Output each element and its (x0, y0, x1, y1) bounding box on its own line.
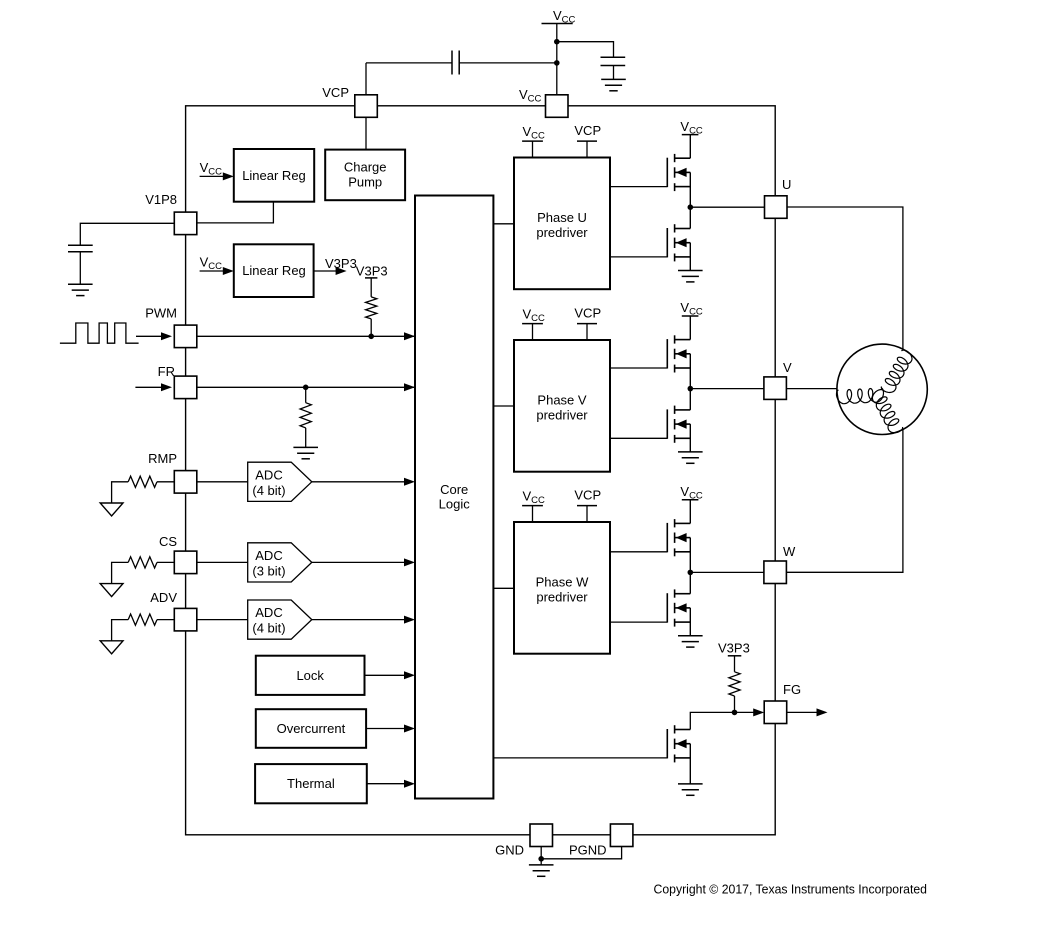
wire CS ext network (112, 562, 129, 583)
wire FG FET drain to node (690, 712, 734, 729)
wire resistor to ground (305, 428, 307, 448)
block Phase V predriver (514, 340, 610, 472)
svg-text:VCP: VCP (574, 305, 601, 320)
transistor V-low (667, 406, 690, 443)
block Phase W predriver (514, 522, 610, 654)
svg-text:V3P3: V3P3 (718, 641, 750, 656)
svg-text:V1P8: V1P8 (145, 192, 177, 207)
wire ADV ext network (112, 620, 129, 641)
wire Vcc to V high FET drain (689, 316, 691, 340)
svg-text:FR: FR (158, 364, 175, 379)
signal ground (RMP) (100, 503, 123, 516)
svg-text:V3P3: V3P3 (356, 264, 388, 279)
wire Linear Reg 2 output V3P3 (314, 270, 341, 272)
wire node to W low drain (689, 572, 691, 593)
svg-text:Core: Core (440, 482, 468, 497)
wire predriver to W low gate (610, 621, 667, 623)
wire predriver to V low gate (610, 437, 667, 439)
wire resistor to RMP pin (157, 481, 174, 483)
wire V low source to ground (689, 424, 691, 452)
pin FR (174, 376, 197, 399)
svg-text:FG: FG (783, 682, 801, 697)
wire W low source to ground (689, 608, 691, 636)
capacitor V1P8 ext (68, 244, 93, 246)
block Thermal (255, 764, 367, 803)
pin FG (764, 701, 787, 724)
pin GND (530, 824, 553, 847)
wire predriver to U high gate (610, 186, 667, 188)
VCP stub (Phase U predriver) (577, 140, 597, 142)
wire Linear Reg 1 to V1P8 (197, 202, 273, 223)
wire GND pin down (540, 847, 542, 859)
junction dot (PWM pullup) (368, 334, 374, 340)
svg-text:VCP: VCP (574, 487, 601, 502)
transistor V-high (667, 335, 690, 372)
ground (phase V low side) (678, 452, 703, 463)
ground (FG FET) (678, 784, 703, 795)
wire predriver to U low gate (610, 256, 667, 258)
motor winding (upper right) (881, 350, 912, 392)
wire node to U pin (690, 206, 764, 208)
wire FG source to ground (689, 744, 691, 784)
svg-text:V3P3: V3P3 (325, 256, 357, 271)
wire W high source to node (689, 538, 691, 573)
wire predriver to V high gate (610, 367, 667, 369)
wire PWM input arrow (136, 335, 166, 337)
svg-text:ADC: ADC (255, 605, 282, 620)
wire cap to ground (79, 252, 81, 285)
wire ADC RMP to core logic (312, 481, 409, 483)
wire cap to ground (613, 66, 615, 80)
wire ADV pin to ADC (197, 619, 248, 621)
svg-text:VCC: VCC (200, 160, 223, 178)
wire predriver to W high gate (610, 551, 667, 553)
ground (GND/PGND) (529, 865, 554, 876)
block Phase U predriver (514, 158, 610, 290)
svg-text:predriver: predriver (536, 589, 588, 604)
pin PGND (610, 824, 633, 847)
resistor V3P3 pullup (PWM) (366, 297, 377, 319)
resistor RMP input (128, 476, 157, 487)
wire FR junction to resistor (305, 387, 307, 402)
junction dot (FG) (732, 710, 738, 716)
Vcc rail (phase W high side) (682, 499, 699, 501)
svg-text:VCC: VCC (523, 124, 546, 142)
capacitor VCP-Vcc (451, 51, 453, 75)
VCP stub (Phase V predriver) (577, 323, 597, 325)
wire core logic to Phase U predriver (493, 223, 514, 225)
resistor ADV input (128, 614, 157, 625)
svg-text:(3 bit): (3 bit) (252, 563, 285, 578)
wire core logic to Phase W predriver (493, 587, 514, 589)
transistor U-high (667, 154, 690, 191)
wire FG node to FG pin (735, 711, 759, 713)
wire resistor to FG node (734, 696, 736, 712)
svg-text:Phase U: Phase U (537, 210, 587, 225)
transistor U-low (667, 224, 690, 261)
ground (V1P8 cap) (68, 284, 93, 295)
signal ground (CS) (100, 584, 123, 597)
svg-text:Copyright © 2017, Texas Instru: Copyright © 2017, Texas Instruments Inco… (654, 883, 928, 897)
svg-text:V: V (783, 360, 792, 375)
node U (688, 204, 694, 210)
svg-text:Lock: Lock (296, 668, 324, 683)
pin PWM (174, 325, 197, 348)
svg-text:U: U (782, 177, 791, 192)
Vcc rail (phase U high side) (682, 134, 699, 136)
svg-text:ADC: ADC (255, 548, 282, 563)
resistor FG pullup (729, 672, 740, 696)
wire Vcc to U high FET drain (689, 135, 691, 159)
wire V3P3 to resistor (370, 278, 372, 297)
wire VCP to cap to Vcc (365, 63, 367, 95)
svg-text:Logic: Logic (439, 497, 471, 512)
wire junction to ground (540, 859, 542, 865)
svg-text:Phase W: Phase W (536, 574, 589, 589)
svg-text:(4 bit): (4 bit) (252, 483, 285, 498)
svg-text:VCC: VCC (523, 489, 546, 507)
svg-text:predriver: predriver (536, 407, 588, 422)
Vcc stub (Phase U predriver) (522, 140, 543, 142)
wire CS pin to ADC (197, 561, 248, 563)
wire core logic to Phase V predriver (493, 405, 514, 407)
wire node to W pin (690, 571, 763, 573)
block Linear Reg 2 (234, 244, 314, 297)
pin VCP (355, 95, 378, 118)
junction dot (Vcc/cap) (554, 39, 560, 45)
wire V pin to motor (787, 388, 837, 390)
svg-text:Linear Reg: Linear Reg (242, 168, 306, 183)
node V (688, 386, 694, 392)
wire U low source to ground (689, 243, 691, 271)
svg-text:PGND: PGND (569, 843, 607, 858)
svg-text:VCP: VCP (322, 85, 349, 100)
wire to Vcc bypass cap (557, 42, 614, 58)
wire FG output (787, 711, 821, 713)
svg-text:Pump: Pump (348, 175, 382, 190)
ground (phase W low side) (678, 636, 703, 647)
pin V (764, 377, 787, 400)
svg-text:RMP: RMP (148, 451, 177, 466)
wire VCP pin to charge pump (365, 117, 367, 149)
wire V1P8 to ext capacitor (80, 223, 174, 245)
wire U high source to node (689, 172, 691, 207)
Vcc stub (Phase W predriver) (522, 505, 543, 507)
wire ADC CS to core logic (312, 561, 409, 563)
wire RMP pin to ADC (197, 481, 248, 483)
Vcc rail (phase V high side) (682, 315, 699, 317)
wire core logic to FG gate (493, 757, 667, 759)
wire Vcc to W high FET drain (689, 500, 691, 524)
svg-text:VCC: VCC (519, 87, 542, 105)
svg-text:ADV: ADV (150, 590, 177, 605)
svg-text:VCP: VCP (574, 123, 601, 138)
capacitor Vcc bypass (601, 56, 626, 58)
block Charge Pump (325, 150, 405, 201)
junction dot (FR divider) (303, 385, 309, 391)
wire Lock to core logic (365, 674, 410, 676)
pin VCC (546, 95, 569, 118)
PWM waveform symbol (60, 323, 139, 343)
transistor FG open-drain (667, 725, 690, 762)
wire cap to Vcc node (459, 62, 557, 64)
junction dot (GND) (538, 856, 544, 862)
svg-text:VCC: VCC (680, 119, 703, 137)
motor (BLDC) circle (837, 344, 927, 434)
ADC (4 bit) for ADV (248, 600, 312, 639)
svg-text:VCC: VCC (680, 484, 703, 502)
transistor W-high (667, 519, 690, 556)
wire resistor to ADV pin (157, 619, 174, 621)
node W (688, 570, 694, 576)
motor winding (lower right) (872, 390, 902, 433)
block Core Logic (415, 196, 493, 799)
ADC (4 bit) for RMP (248, 462, 312, 501)
wire Thermal to core logic (367, 783, 409, 785)
wire Vcc to Linear Reg 2 (200, 270, 228, 272)
resistor CS input (128, 557, 157, 568)
svg-text:ADC: ADC (255, 467, 282, 482)
Vcc supply rail (top) (542, 23, 573, 25)
svg-text:GND: GND (495, 843, 524, 858)
svg-text:VCC: VCC (553, 8, 576, 26)
pin W (764, 561, 787, 584)
wire Vcc rail to Vcc pin (556, 24, 558, 96)
block Linear Reg 1 (234, 149, 314, 202)
wire FR to core logic (197, 386, 415, 388)
Vcc stub (Phase V predriver) (522, 323, 543, 325)
block Lock (256, 656, 365, 695)
svg-text:Charge: Charge (344, 160, 387, 175)
ADC (3 bit) for CS (248, 543, 312, 582)
wire FR input arrow (135, 386, 166, 388)
svg-text:VCC: VCC (523, 307, 546, 325)
svg-text:Overcurrent: Overcurrent (277, 721, 346, 736)
pin CS (174, 551, 197, 574)
ground (phase U low side) (678, 271, 703, 282)
svg-text:Thermal: Thermal (287, 776, 335, 791)
svg-text:W: W (783, 544, 796, 559)
wire node to U low drain (689, 207, 691, 228)
ground (FR resistor) (293, 447, 318, 458)
resistor FR pulldown (300, 403, 311, 428)
svg-text:predriver: predriver (536, 225, 588, 240)
VCP stub (Phase W predriver) (577, 505, 597, 507)
pin V1P8 (174, 212, 197, 235)
signal ground (ADV) (100, 641, 123, 654)
wire RMP ext network (112, 482, 129, 503)
pin U (765, 196, 788, 219)
wire node to V pin (690, 388, 763, 390)
wire resistor to CS pin (157, 561, 174, 563)
pin RMP (174, 471, 197, 494)
svg-text:Linear Reg: Linear Reg (242, 263, 306, 278)
junction dot (Vcc/VCP cap) (554, 60, 560, 66)
wire U pin to motor (787, 207, 903, 349)
wire node to V low drain (689, 389, 691, 410)
ground (Vcc bypass) (601, 79, 626, 90)
svg-text:CS: CS (159, 534, 177, 549)
wire PGND to GND junction (541, 847, 621, 859)
transistor W-low (667, 589, 690, 626)
wire Vcc to Linear Reg 1 (200, 175, 228, 177)
wire W pin to motor (787, 429, 903, 572)
block Overcurrent (256, 709, 366, 748)
svg-text:VCC: VCC (200, 255, 223, 273)
wire V high source to node (689, 354, 691, 389)
svg-text:Phase V: Phase V (537, 392, 586, 407)
wire resistor to PWM line (370, 319, 372, 336)
wire PWM to core logic (197, 335, 415, 337)
wire V3P3 to FG resistor (734, 656, 736, 672)
svg-text:VCC: VCC (680, 300, 703, 318)
motor winding (left) (837, 388, 884, 404)
pin ADV (174, 608, 197, 631)
wire ADC ADV to core logic (312, 619, 409, 621)
wire Overcurrent to core logic (366, 728, 409, 730)
svg-text:(4 bit): (4 bit) (252, 621, 285, 636)
svg-text:PWM: PWM (145, 306, 177, 321)
chip boundary (186, 106, 776, 835)
